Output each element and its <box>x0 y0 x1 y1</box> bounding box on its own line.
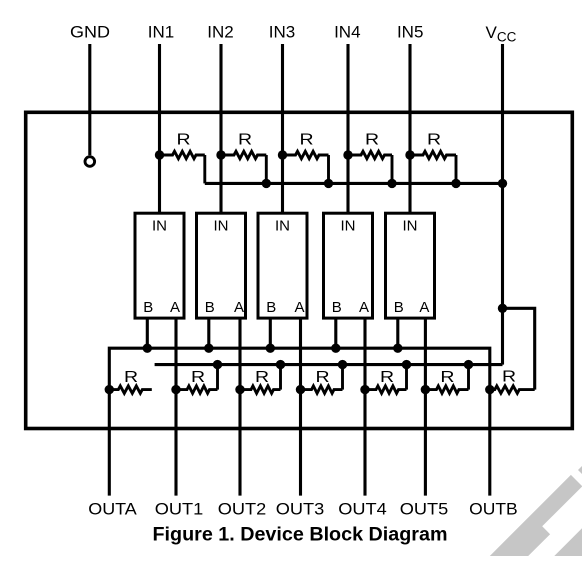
node junction rail-VCC <box>498 179 507 188</box>
node junction line2-riser 1 <box>213 360 222 369</box>
wire IN5 lead <box>408 44 411 213</box>
wire top resistor common rail <box>205 182 503 185</box>
svg-text:IN1: IN1 <box>148 23 174 42</box>
node junction line2-riser 5 <box>464 360 473 369</box>
svg-text:B: B <box>394 299 404 316</box>
svg-text:IN: IN <box>275 218 290 235</box>
GND terminal circle <box>85 157 95 167</box>
node junction IN1-resistor <box>155 150 164 159</box>
wire U3 pin B <box>269 318 272 348</box>
wire pull-up common line <box>155 363 503 366</box>
svg-text:IN: IN <box>214 218 229 235</box>
node junction VCC-spur <box>498 304 507 313</box>
svg-text:B: B <box>266 299 276 316</box>
wire IN3 lead <box>281 44 284 213</box>
node junction OUT2-resistor <box>235 385 244 394</box>
svg-text:R: R <box>255 368 269 386</box>
svg-text:R: R <box>380 368 394 386</box>
node junction rail-drop 5 <box>451 179 460 188</box>
wire IN2 lead <box>219 44 222 213</box>
wire U5 pin A / OUT5 lead <box>424 318 427 496</box>
svg-text:IN: IN <box>403 218 418 235</box>
driver block U4 <box>324 213 373 318</box>
node junction IN2-resistor <box>216 150 225 159</box>
svg-text:A: A <box>419 299 429 316</box>
svg-text:OUTB: OUTB <box>469 501 518 519</box>
svg-text:B: B <box>332 299 342 316</box>
node junction rail-drop 4 <box>387 179 396 188</box>
resistor R (OUT4 pull-up) <box>365 365 407 394</box>
driver block U3 <box>258 213 307 318</box>
svg-text:Figure 1. Device Block Diagram: Figure 1. Device Block Diagram <box>153 525 448 546</box>
resistor R (input IN5) <box>410 151 456 183</box>
driver block U2 <box>197 213 246 318</box>
wire GND lead <box>88 44 91 155</box>
node junction IN4-resistor <box>343 150 352 159</box>
node junction OUTA-resistor <box>105 385 114 394</box>
svg-text:IN4: IN4 <box>334 23 360 42</box>
svg-text:A: A <box>294 299 304 316</box>
svg-text:GND: GND <box>70 23 110 42</box>
resistor R (input IN3) <box>283 151 329 183</box>
svg-text:R: R <box>440 368 454 386</box>
wire U5 pin B <box>396 318 399 348</box>
svg-text:B: B <box>205 299 215 316</box>
wire U4 pin B <box>334 318 337 348</box>
svg-text:IN: IN <box>152 218 167 235</box>
svg-text:IN3: IN3 <box>269 23 295 42</box>
wire VCC lead <box>501 44 504 365</box>
svg-text:R: R <box>315 368 329 386</box>
node junction OUTB-resistor <box>485 385 494 394</box>
svg-text:R: R <box>191 368 205 386</box>
svg-text:A: A <box>359 299 369 316</box>
node junction rail-drop 3 <box>324 179 333 188</box>
wire OUTB lead <box>488 390 491 496</box>
wire IN1 lead <box>158 44 161 213</box>
wire U4 pin A / OUT4 lead <box>363 318 366 496</box>
node junction B3-line <box>266 344 275 353</box>
node junction IN5-resistor <box>405 150 414 159</box>
resistor R (OUT3 pull-up) <box>301 365 343 394</box>
svg-text:OUT4: OUT4 <box>338 501 387 519</box>
node junction OUT4-resistor <box>360 385 369 394</box>
node junction B5-line <box>393 344 402 353</box>
resistor R (input IN1) <box>160 151 205 183</box>
resistor R (OUT5 pull-up) <box>425 365 468 394</box>
svg-text:R: R <box>176 130 190 148</box>
resistor R (input IN2) <box>221 151 266 183</box>
svg-text:A: A <box>170 299 180 316</box>
wire U1 pin B <box>146 318 149 348</box>
node junction B1-line <box>143 344 152 353</box>
svg-text:OUT1: OUT1 <box>155 501 204 519</box>
svg-text:R: R <box>124 368 138 386</box>
wire B-pin common line <box>109 348 490 389</box>
driver block U1 <box>135 213 184 318</box>
svg-text:IN2: IN2 <box>207 23 233 42</box>
wire U3 pin A / OUT3 lead <box>299 318 302 496</box>
node junction rail-drop 2 <box>262 179 271 188</box>
node junction line2-riser 2 <box>276 360 285 369</box>
svg-text:B: B <box>143 299 153 316</box>
svg-text:R: R <box>238 130 252 148</box>
svg-text:R: R <box>299 130 313 148</box>
node junction B2-line <box>204 344 213 353</box>
node junction IN3-resistor <box>278 150 287 159</box>
svg-text:A: A <box>234 299 244 316</box>
wire U2 pin B <box>207 318 210 348</box>
resistor R (OUTA pull-up) <box>109 386 152 393</box>
resistor R (OUT2 pull-up) <box>240 365 281 394</box>
svg-text:IN: IN <box>341 218 356 235</box>
svg-text:OUT3: OUT3 <box>276 501 325 519</box>
node junction line2-riser 3 <box>338 360 347 369</box>
svg-text:OUT5: OUT5 <box>400 501 449 519</box>
svg-text:R: R <box>502 367 516 385</box>
node junction OUT5-resistor <box>421 385 430 394</box>
wire IN4 lead <box>346 44 349 213</box>
resistor R (input IN4) <box>348 151 392 183</box>
resistor R (OUTB pull-up) <box>490 386 535 393</box>
svg-text:IN5: IN5 <box>397 23 423 42</box>
svg-text:R: R <box>427 130 441 148</box>
wire U2 pin A / OUT2 lead <box>238 318 241 496</box>
svg-text:VCC: VCC <box>486 23 517 45</box>
node junction B4-line <box>331 344 340 353</box>
resistor R (OUT1 pull-up) <box>176 365 218 394</box>
node junction OUT3-resistor <box>296 385 305 394</box>
svg-text:OUT2: OUT2 <box>218 501 267 519</box>
node junction line2-riser 4 <box>402 360 411 369</box>
device outline box <box>26 112 573 428</box>
node junction OUT1-resistor <box>171 385 180 394</box>
svg-text:R: R <box>365 130 379 148</box>
svg-text:OUTA: OUTA <box>88 501 137 519</box>
wire OUTA lead <box>108 390 111 496</box>
driver block U5 <box>386 213 435 318</box>
wire U1 pin A / OUT1 lead <box>174 318 177 496</box>
wire VCC spur to OUTB resistor <box>503 308 535 389</box>
